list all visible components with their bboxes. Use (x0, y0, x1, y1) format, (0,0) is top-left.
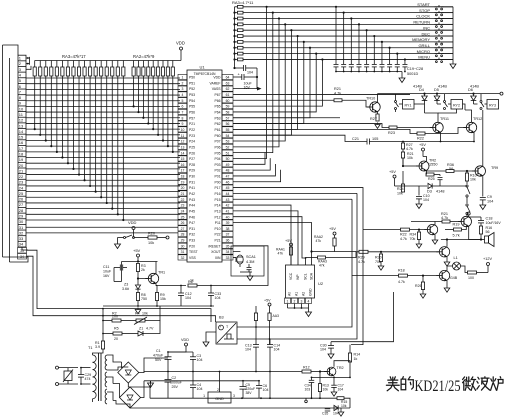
capacitor C33 104 (208, 292, 214, 294)
svg-text:49: 49 (226, 163, 230, 167)
capacitor C12 104 (178, 292, 184, 294)
svg-text:36: 36 (226, 239, 230, 243)
ground (249, 272, 251, 274)
svg-text:A0: A0 (288, 292, 292, 296)
ground B3 (206, 332, 216, 340)
wire matrix columns RA3 to rows (34, 76, 36, 129)
svg-text:103: 103 (305, 388, 311, 392)
terminal relay supply (500, 92, 503, 95)
svg-text:+5V: +5V (285, 239, 292, 243)
resistor R9 15k (155, 293, 158, 301)
svg-text:3: 3 (233, 394, 235, 398)
svg-text:P54: P54 (189, 99, 195, 103)
svg-text:SCL: SCL (304, 273, 308, 280)
svg-text:16: 16 (19, 140, 24, 145)
svg-text:14: 14 (181, 151, 185, 155)
resistor RAA3 47k (318, 256, 326, 259)
svg-text:13: 13 (19, 123, 24, 128)
svg-text:P33: P33 (189, 239, 195, 243)
wire bottom rails (167, 390, 169, 398)
svg-text:17: 17 (19, 146, 24, 151)
svg-text:474: 474 (85, 377, 91, 381)
buzzer BUZ (485, 236, 489, 243)
svg-text:62: 62 (226, 87, 230, 91)
terminal AC input N (56, 383, 59, 386)
ground reset rail (137, 308, 139, 310)
svg-text:P22: P22 (189, 128, 195, 132)
svg-text:P57: P57 (189, 116, 195, 120)
svg-text:P31: P31 (189, 180, 195, 184)
svg-text:R22: R22 (417, 137, 424, 141)
ground (377, 123, 379, 125)
svg-text:24: 24 (181, 209, 185, 213)
capacitor C17 104 (331, 384, 337, 386)
svg-text:4.7k: 4.7k (334, 92, 341, 96)
svg-text:2: 2 (294, 300, 296, 304)
svg-text:RY3: RY3 (489, 104, 496, 108)
terminal AC input L (56, 366, 59, 369)
svg-text:P16: P16 (214, 192, 220, 196)
svg-text:19: 19 (19, 157, 24, 162)
svg-text:4: 4 (308, 300, 310, 304)
svg-text:9: 9 (182, 122, 184, 126)
svg-text:51: 51 (226, 151, 230, 155)
resistor R25 (426, 171, 428, 175)
svg-text:13: 13 (181, 145, 185, 149)
svg-text:P20: P20 (189, 244, 195, 248)
svg-text:A2: A2 (302, 292, 306, 296)
svg-text:CLOCK: CLOCK (416, 14, 430, 19)
svg-text:P21: P21 (189, 122, 195, 126)
wire R1 R5 from primary (102, 309, 104, 341)
wire TR10 collector (377, 94, 379, 103)
capacitor C34 103 (309, 379, 315, 381)
svg-text:18: 18 (181, 175, 185, 179)
resistor network RA2 bodies (133, 61, 135, 68)
svg-text:30: 30 (19, 219, 24, 224)
wire connector lower rows (26, 226, 178, 228)
capacitor C30 104 (328, 345, 334, 347)
svg-text:23: 23 (19, 180, 24, 185)
wire T1 to bridge 1 (107, 355, 122, 362)
capacitor resonator caps (239, 264, 241, 267)
svg-text:C35: C35 (322, 412, 328, 416)
switch contact arrow (466, 200, 468, 203)
svg-text:P05: P05 (214, 151, 220, 155)
svg-text:P42: P42 (189, 192, 195, 196)
svg-text:R21: R21 (334, 87, 341, 91)
transistor TR5 G4B (439, 270, 449, 280)
svg-text:70k: 70k (410, 237, 416, 241)
svg-text:P43: P43 (189, 198, 195, 202)
resistor R16 56 (479, 226, 482, 234)
wire BR1 + out (139, 358, 168, 373)
capacitor C35 104 (325, 408, 331, 410)
door switch SW2 (444, 101, 446, 103)
svg-text:20: 20 (114, 337, 118, 341)
wire top bus of resistor banks (35, 60, 181, 62)
svg-text:4.7k: 4.7k (441, 216, 448, 220)
svg-text:RA2=47k*9: RA2=47k*9 (133, 54, 155, 59)
resistor RAA5 AA3 (268, 313, 271, 321)
svg-text:3: 3 (301, 300, 303, 304)
svg-text:GRILL: GRILL (418, 43, 430, 48)
svg-text:U1: U1 (199, 65, 205, 70)
wire TR11 TR12 emitters (440, 132, 442, 141)
capacitor C2 1000uF 25V (165, 379, 172, 381)
svg-text:4.7k: 4.7k (406, 147, 413, 151)
wire matrix rows (26, 77, 180, 79)
terminal R20 out (166, 236, 169, 239)
svg-text:P32: P32 (189, 233, 195, 237)
svg-text:SCA1: SCA1 (246, 255, 256, 259)
svg-text:P21: P21 (214, 239, 220, 243)
ground TR7 emitter (434, 235, 436, 238)
capacitor C14 104 (267, 344, 273, 346)
IC U1 pin stubs and labels (178, 74, 187, 79)
svg-text:64: 64 (226, 76, 230, 80)
svg-text:104: 104 (423, 198, 429, 202)
svg-text:D4: D4 (419, 88, 424, 92)
svg-text:15k: 15k (160, 297, 166, 301)
svg-text:P41: P41 (189, 186, 195, 190)
wire keyboard right bus (452, 7, 454, 62)
svg-text:200: 200 (112, 314, 118, 318)
svg-text:1550: 1550 (429, 163, 437, 167)
resistor network RA3 bodies (34, 61, 36, 68)
svg-text:34: 34 (226, 250, 230, 254)
svg-text:2k: 2k (141, 268, 145, 272)
capacitor C10 104 (418, 186, 420, 196)
ground (333, 390, 335, 392)
svg-text:25V: 25V (172, 385, 179, 389)
wire buzzer row to driver (441, 239, 481, 241)
svg-text:VDD: VDD (213, 76, 221, 80)
svg-text:P04: P04 (214, 157, 220, 161)
svg-text:R24: R24 (397, 187, 404, 191)
wire keyboard filter columns (335, 7, 337, 64)
svg-text:P27: P27 (189, 157, 195, 161)
svg-text:GND: GND (215, 397, 224, 401)
svg-text:10k: 10k (142, 312, 148, 316)
svg-text:R23: R23 (388, 131, 395, 135)
wire P67 row to relay bus (233, 93, 410, 95)
svg-text:D6: D6 (468, 88, 473, 92)
wire RY2 RY3 bottoms (463, 104, 466, 110)
wire (3, 257, 29, 262)
svg-text:39: 39 (226, 221, 230, 225)
svg-text:24: 24 (19, 185, 24, 190)
resistor R26 (421, 282, 424, 290)
resistor R3 2k (136, 264, 139, 272)
svg-text:5.7k: 5.7k (453, 234, 460, 238)
svg-text:30: 30 (181, 244, 185, 248)
svg-text:60: 60 (226, 99, 230, 103)
svg-text:104: 104 (197, 358, 203, 362)
title 美的KD21/25微波炉 (386, 377, 399, 391)
svg-text:P02: P02 (214, 169, 220, 173)
svg-text:18: 18 (19, 151, 24, 156)
relay RY3 (487, 100, 499, 110)
ground TR6 emitter (446, 257, 448, 260)
wire psu mid rail (144, 371, 270, 373)
svg-text:23: 23 (181, 204, 185, 208)
svg-text:P46: P46 (189, 215, 195, 219)
resistor R1 3.9 (101, 341, 104, 349)
svg-text:10k: 10k (407, 156, 413, 160)
svg-text:XIN: XIN (215, 256, 221, 260)
svg-text:104: 104 (320, 348, 326, 352)
svg-text:G4B: G4B (450, 276, 458, 280)
svg-text:5001D: 5001D (407, 72, 418, 76)
relay RY1 (403, 100, 415, 110)
varistor RV (59, 367, 79, 369)
svg-text:P62: P62 (214, 122, 220, 126)
svg-text:KD21/25: KD21/25 (415, 378, 461, 395)
IC U1 TMP87CB14N body (187, 70, 222, 262)
svg-text:17: 17 (181, 169, 185, 173)
door switch SW1 (395, 101, 397, 103)
svg-text:P10: P10 (214, 227, 220, 231)
svg-text:+12V: +12V (483, 257, 492, 261)
svg-text:C11: C11 (103, 265, 109, 269)
svg-text:56: 56 (449, 167, 453, 171)
svg-text:414B: 414B (470, 85, 479, 89)
svg-text:38V: 38V (246, 391, 253, 395)
svg-text:P45: P45 (189, 209, 195, 213)
ground (422, 290, 424, 293)
resistor R24 10k (395, 185, 404, 187)
svg-text:20: 20 (181, 186, 185, 190)
svg-text:P53: P53 (189, 93, 195, 97)
svg-text:TR12: TR12 (473, 117, 482, 121)
capacitor C4 104 (190, 384, 196, 386)
svg-text:10k: 10k (148, 241, 154, 245)
svg-text:P01: P01 (214, 175, 220, 179)
ground (308, 308, 310, 310)
svg-text:10: 10 (19, 106, 24, 111)
svg-text:1k: 1k (190, 279, 194, 283)
wire TR2b collector to R14 (334, 361, 350, 367)
svg-text:INC: INC (423, 25, 430, 30)
capacitor C18 10uF/16V (469, 227, 481, 240)
svg-text:104: 104 (245, 348, 251, 352)
capacitor 104 bypass (235, 67, 244, 69)
svg-text:P07: P07 (214, 140, 220, 144)
svg-text:1: 1 (182, 76, 184, 80)
svg-text:VDD: VDD (128, 220, 137, 225)
ground (482, 203, 484, 205)
svg-text:46: 46 (226, 180, 230, 184)
wire connector 33 34 to B3 (22, 247, 28, 250)
wire P03-P00 up-turns (233, 152, 265, 164)
svg-text:STOP: STOP (419, 8, 430, 13)
wire B3 outputs (237, 326, 256, 328)
svg-text:+5V: +5V (419, 143, 426, 147)
node pins 1-3 commoning bars (26, 57, 30, 59)
svg-text:56: 56 (226, 122, 230, 126)
svg-text:40: 40 (226, 215, 230, 219)
svg-text:P60: P60 (214, 134, 220, 138)
diode D3 4148 (403, 185, 427, 187)
svg-text:29: 29 (181, 239, 185, 243)
svg-text:P15: P15 (214, 198, 220, 202)
capacitor C6 104 (256, 385, 262, 387)
svg-text:RA3=47k*17: RA3=47k*17 (62, 54, 86, 59)
svg-text:1k: 1k (354, 357, 358, 361)
svg-text:19: 19 (181, 180, 185, 184)
svg-text:C21: C21 (352, 137, 359, 141)
svg-text:48: 48 (226, 169, 230, 173)
svg-text:P17: P17 (214, 186, 220, 190)
wire T1 to bridge 2 (107, 377, 113, 384)
svg-text:43: 43 (226, 198, 230, 202)
svg-text:R20: R20 (148, 232, 155, 236)
resistor R10 10k (466, 171, 468, 173)
bridge rectifier BR2 (120, 387, 141, 408)
capacitor C29 474 (78, 374, 84, 376)
svg-text:MICRO: MICRO (417, 49, 430, 54)
svg-text:P12: P12 (214, 215, 220, 219)
svg-text:P61: P61 (214, 128, 220, 132)
svg-text:RY1: RY1 (405, 104, 412, 108)
svg-text:61: 61 (226, 93, 230, 97)
svg-text:32: 32 (181, 256, 185, 260)
svg-text:+5V: +5V (329, 227, 336, 231)
ground (401, 72, 403, 77)
wire reset bottom rail (114, 281, 122, 283)
resistor R18 4.7k (399, 274, 408, 277)
svg-text:4.7k: 4.7k (398, 280, 405, 284)
svg-text:104: 104 (247, 71, 253, 75)
svg-text:VDD: VDD (181, 338, 189, 342)
svg-text:3: 3 (182, 87, 184, 91)
svg-text:P14: P14 (214, 204, 220, 208)
svg-text:VASS: VASS (212, 87, 222, 91)
resistor R27 (377, 112, 379, 114)
relay RY2 (451, 100, 463, 110)
resistor R30 70k (379, 254, 382, 262)
wire keyboard left bus (234, 7, 236, 68)
door switch SW4 (466, 181, 468, 184)
svg-text:RY2: RY2 (453, 104, 460, 108)
svg-text:P26: P26 (189, 151, 195, 155)
svg-text:104: 104 (185, 296, 191, 300)
svg-text:4148: 4148 (436, 190, 444, 194)
svg-text:XOUT: XOUT (211, 250, 220, 254)
capacitor C13 104 (253, 344, 259, 346)
svg-text:4.7V: 4.7V (146, 327, 154, 331)
svg-text:37: 37 (226, 233, 230, 237)
svg-text:P56: P56 (189, 111, 195, 115)
svg-text:P28: P28 (189, 163, 195, 167)
svg-text:R12: R12 (303, 366, 310, 370)
svg-text:414B: 414B (438, 85, 447, 89)
svg-text:R5: R5 (114, 327, 119, 331)
svg-text:34: 34 (20, 255, 24, 259)
svg-text:P24: P24 (189, 140, 195, 144)
wire TR2b emitter rail (333, 376, 335, 377)
svg-text:MENU: MENU (418, 55, 430, 60)
svg-text:104: 104 (338, 388, 344, 392)
svg-text:RETURN: RETURN (413, 20, 430, 25)
svg-text:15: 15 (19, 135, 24, 140)
svg-text:MEMORY: MEMORY (412, 37, 430, 42)
svg-text:750: 750 (141, 297, 147, 301)
wire P17 long row (233, 188, 363, 230)
svg-text:P13: P13 (214, 209, 220, 213)
svg-text:TR1: TR1 (158, 271, 165, 275)
wire U2 pins to ground (287, 304, 289, 309)
svg-text:104: 104 (197, 387, 203, 391)
svg-text:GND: GND (309, 288, 313, 296)
svg-text:414B: 414B (413, 85, 422, 89)
bridge rectifier BR1 (118, 362, 139, 383)
svg-text:57: 57 (226, 116, 230, 120)
svg-text:R14: R14 (354, 353, 361, 357)
resistor R29 4.7k (359, 250, 368, 253)
IC U2 pin boxes 1 2 3 4 (285, 298, 291, 304)
svg-text:56: 56 (486, 230, 490, 234)
svg-text:P47: P47 (189, 221, 195, 225)
svg-text:14: 14 (19, 129, 24, 134)
svg-text:7: 7 (182, 111, 184, 115)
svg-text:35: 35 (226, 244, 230, 248)
svg-text:P11: P11 (215, 221, 221, 225)
svg-text:B3: B3 (219, 316, 224, 320)
diode D7 (334, 405, 338, 410)
wire D3 to door switch (440, 185, 467, 187)
resistor R22b 4.7k + R34 70k (401, 228, 410, 231)
svg-text:P30: P30 (189, 175, 195, 179)
ground arrow VASS (257, 87, 262, 91)
svg-text:P50: P50 (189, 76, 195, 80)
svg-text:C18: C18 (486, 217, 493, 221)
svg-text:5: 5 (182, 99, 184, 103)
svg-text:+5V: +5V (133, 248, 141, 253)
svg-text:U2: U2 (318, 281, 324, 286)
wire MCU to U2 SDA SCL (233, 211, 298, 265)
connector CN1 outer frame (3, 45, 19, 55)
svg-text:38: 38 (226, 227, 230, 231)
svg-text:P52: P52 (189, 87, 195, 91)
resistor R27b 4.7k (402, 142, 404, 144)
capacitor C19~C28 row (334, 64, 339, 66)
ground (330, 352, 332, 354)
svg-text:10k: 10k (323, 388, 329, 392)
svg-text:6: 6 (182, 105, 184, 109)
svg-text:VCC: VCC (289, 272, 293, 280)
svg-text:R27: R27 (370, 117, 377, 121)
svg-text:3.6#: 3.6# (122, 287, 129, 291)
svg-text:TEST: TEST (189, 250, 198, 254)
door switch SW3 (480, 101, 482, 103)
svg-text:10k: 10k (341, 404, 347, 408)
resistor R20 10k (135, 237, 149, 239)
wire BR1 - ground (128, 381, 150, 387)
ground (380, 262, 382, 265)
svg-text:3.9: 3.9 (95, 345, 100, 349)
svg-text:/RESET: /RESET (208, 244, 220, 248)
wire keyboard scan columns to MCU (233, 7, 267, 159)
resistor R34 70k (417, 232, 420, 240)
svg-text:44: 44 (226, 192, 230, 196)
wire relay top bus (378, 93, 501, 95)
svg-text:33: 33 (226, 256, 230, 260)
svg-text:VSS: VSS (189, 256, 197, 260)
svg-text:4.7k: 4.7k (358, 260, 365, 264)
svg-text:AA3: AA3 (273, 314, 280, 318)
